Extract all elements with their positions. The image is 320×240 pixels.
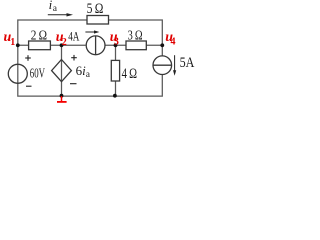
svg-text:5A: 5A (180, 55, 195, 71)
svg-text:4A: 4A (68, 29, 80, 44)
svg-text:60V: 60V (30, 67, 45, 82)
svg-text:4: 4 (171, 37, 176, 48)
svg-text:2 Ω: 2 Ω (31, 29, 47, 44)
svg-text:3: 3 (114, 36, 119, 47)
svg-text:4 Ω: 4 Ω (122, 66, 138, 82)
svg-text:6ia: 6ia (76, 63, 91, 80)
svg-text:3 Ω: 3 Ω (128, 28, 143, 43)
svg-text:a: a (53, 4, 58, 14)
svg-text:5 Ω: 5 Ω (87, 1, 104, 17)
svg-text:1: 1 (10, 37, 15, 48)
svg-text:2: 2 (62, 37, 67, 48)
